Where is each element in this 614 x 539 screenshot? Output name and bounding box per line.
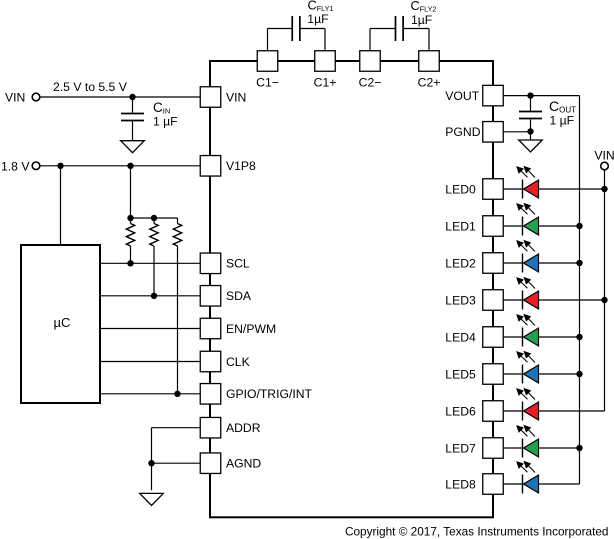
- svg-text:2.5 V to 5.5 V: 2.5 V to 5.5 V: [53, 80, 128, 94]
- svg-text:CLK: CLK: [226, 355, 250, 369]
- svg-text:Copyright © 2017, Texas Instru: Copyright © 2017, Texas Instruments Inco…: [345, 525, 609, 539]
- svg-text:PGND: PGND: [445, 125, 480, 139]
- svg-text:C1+: C1+: [314, 76, 337, 90]
- svg-text:LED0: LED0: [445, 182, 476, 196]
- svg-text:LED1: LED1: [445, 219, 476, 233]
- svg-text:C2+: C2+: [418, 76, 441, 90]
- svg-text:1 µF: 1 µF: [153, 115, 178, 129]
- svg-text:LED7: LED7: [445, 441, 476, 455]
- svg-text:LED3: LED3: [445, 293, 476, 307]
- svg-text:LED6: LED6: [445, 404, 476, 418]
- svg-text:C2−: C2−: [359, 76, 382, 90]
- svg-text:C1−: C1−: [256, 76, 279, 90]
- svg-text:LED8: LED8: [445, 477, 476, 491]
- svg-text:µC: µC: [54, 315, 71, 330]
- svg-text:VIN: VIN: [594, 149, 614, 163]
- svg-text:1 µF: 1 µF: [550, 114, 575, 128]
- svg-text:SDA: SDA: [226, 289, 252, 303]
- svg-text:1.8 V: 1.8 V: [1, 159, 30, 173]
- svg-text:LED2: LED2: [445, 256, 476, 270]
- svg-text:EN/PWM: EN/PWM: [226, 322, 276, 336]
- svg-text:VIN: VIN: [226, 90, 246, 104]
- svg-text:ADDR: ADDR: [226, 421, 261, 435]
- svg-text:1µF: 1µF: [307, 12, 328, 26]
- svg-text:LED4: LED4: [445, 330, 476, 344]
- svg-text:GPIO/TRIG/INT: GPIO/TRIG/INT: [226, 387, 313, 401]
- svg-text:SCL: SCL: [226, 257, 250, 271]
- svg-text:1µF: 1µF: [411, 13, 432, 27]
- svg-text:VOUT: VOUT: [445, 89, 479, 103]
- svg-text:VIN: VIN: [5, 90, 25, 104]
- svg-text:AGND: AGND: [226, 457, 261, 471]
- svg-text:V1P8: V1P8: [226, 159, 256, 173]
- svg-text:LED5: LED5: [445, 367, 476, 381]
